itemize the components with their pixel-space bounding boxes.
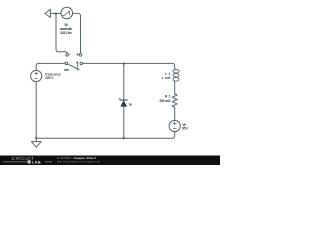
wire source to right corner down <box>73 13 81 53</box>
wire flag to source <box>50 12 61 14</box>
switch control terminal left <box>66 53 69 56</box>
bottom row <box>36 137 172 139</box>
svg-text:CIRCUIT: CIRCUIT <box>12 156 35 162</box>
minus mark <box>69 54 70 56</box>
svg-text:SW6: SW6 <box>64 68 69 72</box>
switch lever <box>68 64 80 70</box>
footer logo rule <box>3 161 52 163</box>
resistor R1 zigzag <box>172 94 177 107</box>
svg-text:333.3 Hz: 333.3 Hz <box>60 31 72 35</box>
plus mark <box>77 54 79 56</box>
svg-text:85 V: 85 V <box>182 126 189 130</box>
wire V9 to bottom row <box>172 132 175 139</box>
ground triangle <box>31 142 41 148</box>
left rail below Vsource <box>35 82 37 138</box>
inductor L1 coil <box>174 68 176 69</box>
switch control terminal right <box>79 53 82 56</box>
svg-text:LAB: LAB <box>32 160 41 165</box>
source Vsource <box>31 70 42 81</box>
switch contact right <box>80 62 83 65</box>
diode rail <box>123 64 125 138</box>
svg-text:http://circuitlab.com/c9qrgxbm: http://circuitlab.com/c9qrgxbm5q <box>57 160 101 164</box>
wire junction down-left corner to control <box>56 14 67 54</box>
svg-text:200 mΩ: 200 mΩ <box>159 99 170 103</box>
sawtooth source V8 <box>61 7 73 19</box>
diode D0 triangle <box>120 100 127 106</box>
svg-text:D0: D0 <box>129 102 133 106</box>
main row left segment from Vsource corner <box>36 63 65 70</box>
diode D0 cathode bar <box>119 99 127 100</box>
wire resistor to V9 <box>174 107 176 120</box>
footer bar <box>0 156 220 166</box>
labels <box>60 23 73 72</box>
svg-text:1 mH: 1 mH <box>161 76 171 80</box>
junction dot diode top <box>123 63 125 65</box>
svg-text:100 V: 100 V <box>45 76 54 80</box>
wire coil to resistor <box>174 81 176 94</box>
junction dot diode bottom <box>123 137 125 139</box>
switch arrow <box>76 62 78 70</box>
junction dot top-left <box>55 13 57 15</box>
main row right segment <box>83 63 175 68</box>
sawtooth glyph <box>63 11 70 15</box>
switch contact left <box>65 62 68 65</box>
footer logo LAB <box>28 160 31 163</box>
source V9 <box>169 120 180 131</box>
ground stub <box>35 138 37 141</box>
junction dot ground tee <box>35 137 37 139</box>
node flag triangle <box>45 9 50 17</box>
